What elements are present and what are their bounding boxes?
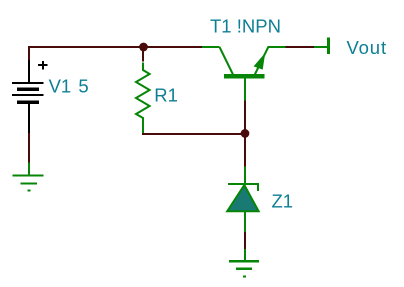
wire zener bottom to ground [244,232,246,249]
collector diagonal [220,47,234,75]
emitter diagonal [255,47,268,75]
zener diode Z1 [227,167,259,233]
terminal Vout [314,38,330,55]
wire base vertical to node [244,100,246,133]
wire emitter to Vout [286,46,315,48]
emitter lead horizontal [268,46,286,48]
svg-text:Z1: Z1 [272,190,294,211]
zener bottom lead [244,212,246,233]
collector lead horizontal [202,46,220,48]
wire top horizontal V1 to T1 [28,46,202,48]
wire node down to zener [244,134,246,167]
transistor T1 [202,46,286,100]
zener top lead [244,167,246,184]
node junction dot at R1 top [139,43,148,52]
wire battery top vertical [28,46,30,61]
zener wing [257,185,259,192]
zener cathode bar [228,183,259,185]
base bar [224,74,264,78]
wire R1 top drop [142,50,144,62]
ground (left, battery) [12,163,43,192]
svg-text:Vout: Vout [347,37,387,58]
battery V1 [12,60,43,133]
svg-text:5: 5 [78,76,88,97]
node junction dot at base node [241,129,250,138]
wire bottom horizontal R1 to base node [142,133,246,135]
ground (right, zener) [229,249,259,278]
battery plus sign [38,61,47,70]
zener triangle [227,185,258,211]
svg-text:T1 !NPN: T1 !NPN [210,16,281,37]
wire battery minus to ground [28,133,30,163]
base lead [244,78,246,100]
svg-text:V1: V1 [49,76,72,97]
svg-text:R1: R1 [154,85,178,106]
emitter arrow [254,53,266,70]
resistor R1 [136,63,150,134]
